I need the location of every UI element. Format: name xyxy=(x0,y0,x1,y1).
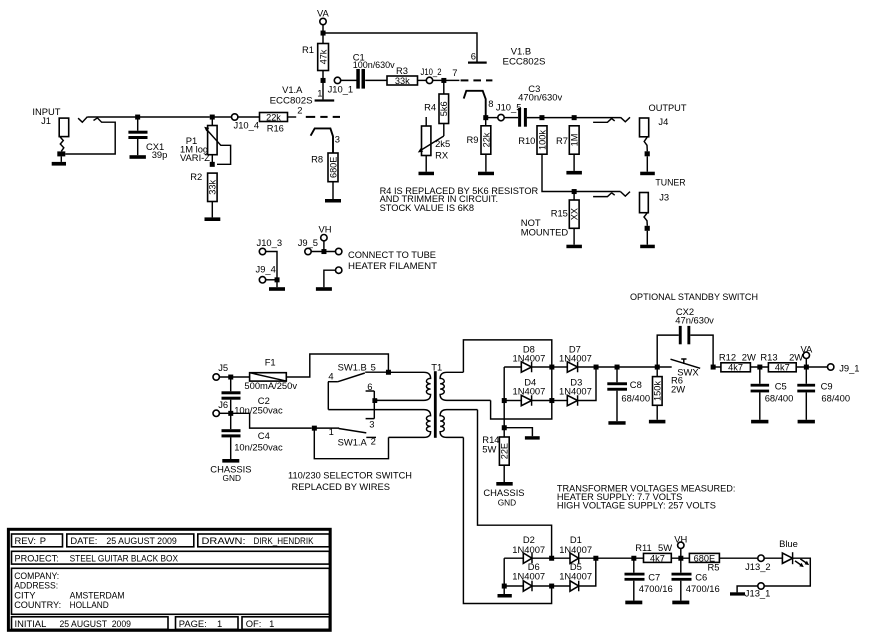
wire D8/D4 junction link xyxy=(551,367,553,401)
svg-text:4k7: 4k7 xyxy=(728,363,743,373)
junction pin 6 tap xyxy=(372,398,377,403)
svg-text:22E: 22E xyxy=(500,443,510,459)
ground R8 xyxy=(325,199,341,203)
wire junction to R15 xyxy=(573,194,575,201)
svg-text:1N4007: 1N4007 xyxy=(559,571,592,582)
diode D8 1N4007 xyxy=(504,344,552,373)
junction R15 top xyxy=(572,189,577,194)
wire C1 to R3 xyxy=(365,79,387,81)
title cell DATE xyxy=(67,534,194,547)
svg-text:J1: J1 xyxy=(41,115,51,126)
svg-text:J3: J3 xyxy=(659,191,669,202)
svg-text:3: 3 xyxy=(369,419,374,430)
capacitor C2 10n/250vac xyxy=(222,379,283,415)
diode D2 1N4007 xyxy=(504,534,551,563)
title cell PAGE xyxy=(176,617,239,630)
diode D7 1N4007 xyxy=(554,344,596,373)
node VA supply out xyxy=(801,343,814,367)
svg-text:HEATER FILAMENT: HEATER FILAMENT xyxy=(348,260,437,271)
svg-text:VARI-Z: VARI-Z xyxy=(180,152,210,163)
svg-text:C6: C6 xyxy=(695,571,707,582)
svg-text:XX: XX xyxy=(570,208,580,220)
svg-text:68/400: 68/400 xyxy=(821,393,850,404)
title cell OF xyxy=(242,617,329,630)
switch SW1 pins 6-3 xyxy=(366,381,375,430)
svg-text:C5: C5 xyxy=(775,381,787,392)
ground C6 xyxy=(672,601,689,605)
junction J5/C2 xyxy=(228,375,233,380)
ground R15 xyxy=(566,245,582,249)
note transformer voltages xyxy=(557,482,736,510)
node VH supply out xyxy=(674,533,687,558)
resistor R10 100k xyxy=(518,126,547,154)
svg-text:22k: 22k xyxy=(481,132,491,147)
svg-text:1N4007: 1N4007 xyxy=(512,544,545,555)
svg-text:HOLLAND: HOLLAND xyxy=(70,599,109,610)
wire R5 to J13_2 xyxy=(719,557,757,559)
resistor R16 22k xyxy=(260,112,288,133)
wire R15 to ground xyxy=(573,228,575,244)
op V1.B labels xyxy=(503,45,546,66)
wire R9 to ground xyxy=(485,154,487,172)
resistor R8 680E xyxy=(311,153,338,182)
svg-text:J9_1: J9_1 xyxy=(839,363,859,374)
junction SW1.B node 5 xyxy=(386,370,391,375)
svg-text:8: 8 xyxy=(488,98,493,109)
svg-text:5: 5 xyxy=(371,361,376,372)
svg-text:4k7: 4k7 xyxy=(775,363,790,373)
svg-text:P: P xyxy=(40,535,46,546)
svg-text:R16: R16 xyxy=(267,123,284,134)
resistor R14 22E 5W xyxy=(482,434,509,465)
resistor R12 4k7 2W xyxy=(715,352,768,373)
chassis ground R14 xyxy=(483,482,524,507)
ground R2 xyxy=(205,217,221,221)
wire R8 to ground xyxy=(332,182,334,199)
chassis ground C4 xyxy=(210,459,251,483)
resistor R4 5k6 xyxy=(424,94,449,124)
ground C7 xyxy=(625,601,642,605)
svg-text:1: 1 xyxy=(329,426,334,437)
svg-text:T1: T1 xyxy=(431,361,442,372)
ground R7 xyxy=(566,171,582,175)
wire F1 to SW1.B node 5 xyxy=(286,354,388,377)
wire T1 secondary top to rectifier xyxy=(463,340,551,372)
transformer T1 secondary top winding xyxy=(440,372,491,400)
svg-text:F1: F1 xyxy=(265,357,276,368)
svg-text:MOUNTED: MOUNTED xyxy=(521,226,569,237)
diode D3 1N4007 xyxy=(554,369,596,405)
wire T1 secondary to heater bridge AC1 xyxy=(478,410,552,559)
tube V1.B anode pin 6 xyxy=(468,50,487,63)
svg-text:R7: R7 xyxy=(556,135,568,146)
svg-text:7: 7 xyxy=(452,67,457,78)
wire R7 to ground xyxy=(573,154,575,171)
connector J6 xyxy=(213,399,231,417)
svg-text:J5: J5 xyxy=(218,362,228,373)
potentiometer P1 1M log VARI-Z xyxy=(180,119,231,164)
tube V1.A anode pin 1 xyxy=(315,82,335,102)
junction R7 top xyxy=(572,115,577,120)
svg-text:R15: R15 xyxy=(551,208,568,219)
connector J13_2 xyxy=(745,555,771,572)
note R4 replacement xyxy=(380,185,539,213)
junction SW1.A node 1 xyxy=(312,426,317,431)
capacitor C8 68/400 xyxy=(607,369,650,421)
tube V1.A grid pin 2 xyxy=(288,105,341,118)
wire pin6 to T1 xyxy=(377,399,378,401)
svg-text:GND: GND xyxy=(498,497,516,507)
svg-text:J13_1: J13_1 xyxy=(745,588,771,599)
ground J13_1 xyxy=(730,586,758,596)
svg-text:OF:: OF: xyxy=(246,618,262,629)
svg-text:R9: R9 xyxy=(467,134,479,145)
svg-text:R12: R12 xyxy=(719,352,736,363)
note heater filament xyxy=(348,249,437,271)
svg-text:2W: 2W xyxy=(671,383,685,394)
svg-text:PROJECT:: PROJECT: xyxy=(15,552,59,563)
switch SW1.A xyxy=(316,426,376,447)
svg-text:R2: R2 xyxy=(190,171,202,182)
resistor R13 4k7 2W xyxy=(760,352,827,373)
svg-text:R11: R11 xyxy=(635,542,652,553)
svg-text:J13_2: J13_2 xyxy=(745,561,771,572)
junction D7 output xyxy=(594,365,599,370)
resistor R3 33k xyxy=(387,65,418,86)
svg-text:R13: R13 xyxy=(760,352,777,363)
svg-text:GND: GND xyxy=(223,473,241,483)
op V1.A triode labels xyxy=(270,84,313,105)
diode D5 1N4007 xyxy=(554,560,596,591)
ground C5 xyxy=(751,420,768,424)
jack J1 INPUT xyxy=(32,106,115,166)
junction D4/D3 xyxy=(549,398,554,403)
capacitor C3 470n/630v xyxy=(518,83,562,127)
diode D4 1N4007 xyxy=(506,377,551,406)
svg-text:HIGH VOLTAGE SUPPLY: 257 VOLTS: HIGH VOLTAGE SUPPLY: 257 VOLTS xyxy=(557,499,716,510)
svg-text:ECC802S: ECC802S xyxy=(503,56,546,67)
svg-text:3: 3 xyxy=(335,134,340,145)
transformer T1 primary top winding xyxy=(374,372,430,400)
junction CX1 top xyxy=(135,115,140,120)
svg-text:R4: R4 xyxy=(424,101,436,112)
svg-text:Blue: Blue xyxy=(779,538,798,549)
svg-text:68/400: 68/400 xyxy=(765,393,794,404)
capacitor CX1 39p xyxy=(128,119,167,160)
connector J10_3 xyxy=(257,237,283,280)
svg-text:1N4007: 1N4007 xyxy=(559,352,592,363)
junction R1/J10_1/plate xyxy=(321,78,326,83)
title cell DRAWN xyxy=(198,534,329,547)
junction R10 top xyxy=(539,115,544,120)
svg-text:C7: C7 xyxy=(648,571,660,582)
svg-text:R5: R5 xyxy=(708,561,720,572)
LED Blue xyxy=(764,538,809,567)
svg-text:C4: C4 xyxy=(258,430,270,441)
svg-text:4k7: 4k7 xyxy=(650,553,665,563)
junction C5 top xyxy=(757,365,762,370)
connector J10_4 xyxy=(232,114,260,131)
junction J6/C2/C4 xyxy=(228,411,233,416)
wire J10_4 to R16 xyxy=(238,116,260,118)
svg-text:J9_4: J9_4 xyxy=(256,263,276,274)
junction D8/D7 xyxy=(549,365,554,370)
node VA (top supply) xyxy=(317,8,330,25)
junction at VA rail xyxy=(321,31,326,36)
svg-text:DIRK_HENDRIK: DIRK_HENDRIK xyxy=(254,535,315,546)
transformer T1 core xyxy=(434,371,437,438)
svg-text:33k: 33k xyxy=(208,179,218,194)
svg-text:J10_2: J10_2 xyxy=(421,66,442,77)
svg-text:DATE:: DATE: xyxy=(70,535,97,546)
connector J9_4 xyxy=(256,263,286,291)
svg-text:110/230 SELECTOR SWITCH: 110/230 SELECTOR SWITCH xyxy=(288,469,412,480)
wire J10_5 to C3 xyxy=(504,117,518,119)
svg-text:R8: R8 xyxy=(311,153,323,164)
wire R14 to chassis ground xyxy=(503,465,505,482)
main B+ rail xyxy=(598,366,671,368)
connector J10_2 xyxy=(421,66,442,84)
wire node to R4 xyxy=(443,82,445,94)
wire R4 to trimmer wiper xyxy=(443,124,445,137)
junction D6/D5 AC2 xyxy=(549,584,554,589)
svg-text:VH: VH xyxy=(319,224,332,235)
svg-text:5k6: 5k6 xyxy=(439,101,449,116)
svg-text:INITIAL: INITIAL xyxy=(15,618,47,629)
svg-text:25 AUGUST 2009: 25 AUGUST 2009 xyxy=(106,535,176,546)
junction D1/D5 output xyxy=(593,556,598,561)
diode D1 1N4007 xyxy=(554,534,596,563)
junction P1 bottom xyxy=(210,162,215,167)
svg-text:COUNTRY:: COUNTRY: xyxy=(14,599,61,610)
svg-text:J9_5: J9_5 xyxy=(298,237,318,248)
svg-text:39p: 39p xyxy=(152,149,168,160)
svg-text:1N4007: 1N4007 xyxy=(559,544,592,555)
transformer T1 secondary bottom winding xyxy=(440,410,477,438)
ground CX1 xyxy=(130,155,146,159)
switch SW1.B xyxy=(328,361,388,409)
junction grid 7 node xyxy=(441,78,446,83)
title cell company/address xyxy=(12,568,330,614)
diode D6 1N4007 xyxy=(506,561,551,591)
jack J4 switch contact xyxy=(593,117,630,122)
svg-text:1M: 1M xyxy=(570,134,580,147)
heater bridge left link xyxy=(503,558,505,586)
wire P1 to J10_4 xyxy=(215,116,232,118)
resistor R2 33k xyxy=(190,171,218,202)
capacitor C7 4700/16 xyxy=(625,560,673,600)
wire R1 to node 1 xyxy=(322,71,324,81)
svg-text:CONNECT TO TUBE: CONNECT TO TUBE xyxy=(348,249,436,260)
svg-text:1N4007: 1N4007 xyxy=(513,385,546,396)
svg-text:680E: 680E xyxy=(328,157,338,178)
svg-text:4700/16: 4700/16 xyxy=(686,583,720,594)
svg-text:5W: 5W xyxy=(482,444,496,455)
title cell INITIAL xyxy=(12,617,169,630)
svg-text:J10_5: J10_5 xyxy=(496,102,522,113)
svg-text:STOCK VALUE IS 6K8: STOCK VALUE IS 6K8 xyxy=(380,202,475,213)
svg-text:4700/16: 4700/16 xyxy=(639,583,673,594)
svg-text:R10: R10 xyxy=(518,135,535,146)
junction C7 top xyxy=(631,556,636,561)
svg-text:5W: 5W xyxy=(658,542,672,553)
svg-text:DRAWN:: DRAWN: xyxy=(202,535,246,546)
junction cathode node 8 xyxy=(483,115,488,120)
svg-text:VA: VA xyxy=(317,8,330,19)
junction R6/CX2 left xyxy=(655,365,660,370)
resistor R15 XX not mounted xyxy=(521,200,580,237)
jack J4 OUTPUT xyxy=(640,102,687,175)
switch SWX standby xyxy=(671,359,701,378)
capacitor C4 10n/250vac xyxy=(222,416,283,460)
svg-text:C8: C8 xyxy=(630,379,642,390)
title cell REV xyxy=(12,534,63,547)
tube V1.A cathode pin 3 xyxy=(311,128,340,153)
wire C3 to output jack xyxy=(527,117,621,119)
heater ground pin xyxy=(316,267,342,291)
wire node 8 to J10_5 xyxy=(488,117,498,119)
resistor R11 4k7 5W xyxy=(635,542,689,563)
svg-text:2: 2 xyxy=(297,105,302,116)
ground center tap xyxy=(525,436,540,439)
resistor R5 680E xyxy=(689,553,719,572)
svg-text:6: 6 xyxy=(367,381,372,392)
svg-text:1: 1 xyxy=(217,618,222,629)
wire input rail xyxy=(87,116,209,118)
resistor R7 1M xyxy=(556,126,580,154)
junction D4 left xyxy=(502,398,507,403)
ground heater bridge xyxy=(503,588,505,594)
svg-text:1N4007: 1N4007 xyxy=(513,352,546,363)
svg-text:1: 1 xyxy=(317,87,322,98)
wire R3 to J10_2 xyxy=(418,79,427,81)
wire J10_2 to grid node xyxy=(433,79,444,81)
svg-text:150k: 150k xyxy=(653,381,663,401)
wire R10 to tuner rail xyxy=(542,154,621,191)
junction P1 top xyxy=(210,115,215,120)
svg-text:J10_4: J10_4 xyxy=(234,119,260,130)
tube V1.B cathode pin 8 xyxy=(464,91,494,118)
svg-text:OPTIONAL STANDBY SWITCH: OPTIONAL STANDBY SWITCH xyxy=(630,291,758,302)
svg-text:6: 6 xyxy=(471,50,476,61)
svg-text:470n/630v: 470n/630v xyxy=(518,92,562,103)
wire node 8 to R9 xyxy=(485,119,487,126)
node VH heater xyxy=(319,224,332,252)
jack J3 switch contact xyxy=(593,192,630,197)
capacitor C6 4700/16 xyxy=(672,560,720,600)
svg-text:1N4007: 1N4007 xyxy=(512,571,545,582)
svg-text:10n/250vac: 10n/250vac xyxy=(234,442,283,453)
svg-text:1N4007: 1N4007 xyxy=(559,385,592,396)
title block outer frame xyxy=(8,529,330,630)
junction D6 left / ground xyxy=(502,584,507,589)
resistor R1 47k xyxy=(302,44,329,71)
junction R14 top / center tap ground xyxy=(502,425,507,430)
wire SW1.A node to T1 bottom xyxy=(314,430,388,458)
resistor R6 150k 2W xyxy=(653,369,686,420)
jack J3 TUNER xyxy=(640,176,686,248)
wire LED to J13_1 xyxy=(764,558,810,586)
connector J9_5 xyxy=(298,237,342,255)
svg-text:J4: J4 xyxy=(658,116,668,127)
wire R2 to ground xyxy=(211,202,213,218)
svg-text:25 AUGUST 2009: 25 AUGUST 2009 xyxy=(60,618,132,629)
wire center tap to ground xyxy=(506,428,532,437)
svg-text:100n/630v: 100n/630v xyxy=(353,59,395,70)
svg-text:47n/630v: 47n/630v xyxy=(675,315,714,326)
svg-text:R1: R1 xyxy=(302,44,314,55)
svg-text:RX: RX xyxy=(435,149,449,160)
tube V1.B grid pin 7 xyxy=(446,67,492,81)
ground C8 xyxy=(608,421,625,425)
svg-text:68/400: 68/400 xyxy=(621,393,650,404)
ground R9 xyxy=(478,172,494,176)
svg-text:SW1.A: SW1.A xyxy=(338,436,368,447)
svg-text:2W: 2W xyxy=(742,352,756,363)
transformer T1 primary bottom winding xyxy=(328,410,430,438)
connector J13_1 xyxy=(745,583,771,599)
capacitor CX2 47n/630v xyxy=(657,306,714,367)
svg-text:33k: 33k xyxy=(395,76,410,86)
svg-text:J10_3: J10_3 xyxy=(257,237,283,248)
svg-text:C9: C9 xyxy=(821,381,833,392)
wire T1 secondary mid to rectifier xyxy=(491,400,552,419)
svg-text:ECC802S: ECC802S xyxy=(270,94,313,105)
svg-text:REV:: REV: xyxy=(15,535,37,546)
note selector switch xyxy=(288,469,412,492)
junction CX2 right xyxy=(711,365,716,370)
connector J10_5 xyxy=(496,102,522,121)
connector J5 xyxy=(213,362,250,380)
svg-text:PAGE:: PAGE: xyxy=(179,618,207,629)
junction C6 top xyxy=(678,556,683,561)
connector J9_1 xyxy=(828,363,860,374)
heater rail xyxy=(598,557,644,559)
capacitor C1 100n/630v xyxy=(353,51,395,88)
capacitor C9 68/400 xyxy=(797,369,850,420)
fuse F1 500mA/250v xyxy=(244,357,297,392)
svg-text:REPLACED BY WIRES: REPLACED BY WIRES xyxy=(292,481,391,492)
junction C9 top xyxy=(804,365,809,370)
rectifier left rail xyxy=(503,367,505,437)
svg-text:STEEL GUITAR BLACK BOX: STEEL GUITAR BLACK BOX xyxy=(70,552,179,563)
trimmer RX 2k5 xyxy=(418,117,450,172)
ground C9 xyxy=(798,420,815,424)
svg-text:SW1.B: SW1.B xyxy=(338,361,367,372)
ground trimmer xyxy=(419,172,435,176)
ground R6 xyxy=(649,420,666,424)
svg-text:100k: 100k xyxy=(537,130,547,150)
svg-text:500mA/250v: 500mA/250v xyxy=(244,380,297,391)
svg-text:22k: 22k xyxy=(266,112,281,122)
svg-text:J10_1: J10_1 xyxy=(328,84,354,95)
wire VA to R1 and V1.B plate rail xyxy=(323,25,477,62)
svg-text:2k5: 2k5 xyxy=(435,138,450,149)
wire J6 to SW1.A node xyxy=(233,413,312,428)
title cell PROJECT xyxy=(12,551,330,564)
svg-text:J6: J6 xyxy=(218,399,228,410)
svg-text:TUNER: TUNER xyxy=(655,176,685,187)
junction C8 top xyxy=(615,365,620,370)
junction D2/D1 AC1 xyxy=(549,556,554,561)
resistor R9 22k xyxy=(467,126,492,154)
capacitor C5 68/400 xyxy=(751,369,794,420)
svg-text:4: 4 xyxy=(328,371,333,382)
svg-text:OUTPUT: OUTPUT xyxy=(649,102,687,113)
connector J10_1 xyxy=(328,77,354,94)
wire T1 secondary to heater bridge AC2 xyxy=(463,437,551,603)
wire J10_1 to C1 xyxy=(341,79,357,81)
